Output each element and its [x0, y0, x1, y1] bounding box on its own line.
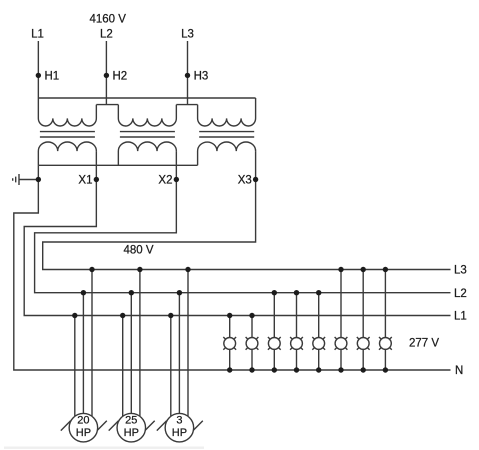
transformer T3 secondary winding: [198, 142, 256, 165]
junction E1 feeder: [227, 313, 232, 318]
transformer T3 primary winding: [198, 98, 256, 126]
junction E6 neutral: [338, 367, 343, 372]
wire delta jog H2: [96, 104, 118, 106]
wire X3 to L3 feeder: [43, 151, 451, 269]
svg-text:L2: L2: [454, 288, 467, 300]
lamp E7 bottom lead: [362, 349, 364, 370]
wire L1 drop: [37, 41, 39, 98]
lamp E1: [224, 338, 236, 350]
wire motor M1 branch L2: [82, 293, 84, 414]
lamp E2 top lead: [251, 316, 253, 338]
lamp E5 top lead: [318, 293, 320, 338]
svg-text:25: 25: [125, 415, 137, 427]
junction E5 feeder: [316, 290, 321, 295]
lamp E3 bottom lead: [273, 349, 275, 370]
junction M3-L3: [185, 267, 190, 272]
wire motor M1 branch L1: [74, 316, 76, 417]
lamp E4 bottom lead: [296, 349, 298, 370]
svg-text:H2: H2: [113, 71, 128, 83]
svg-text:L3: L3: [181, 29, 194, 41]
junction E7 feeder: [361, 267, 366, 272]
lamp E7: [357, 338, 369, 350]
svg-text:H3: H3: [194, 71, 209, 83]
lamp E7 top lead: [362, 270, 364, 338]
motor M1: [69, 413, 98, 442]
lamp E8 top lead: [384, 270, 386, 338]
lamp E5 bottom lead: [318, 349, 320, 370]
junction M3-L2: [177, 290, 182, 295]
junction E8 neutral: [383, 367, 388, 372]
junction E2 feeder: [249, 313, 254, 318]
junction E4 neutral: [294, 367, 299, 372]
svg-text:L1: L1: [31, 29, 44, 41]
terminal H2: [104, 73, 109, 78]
svg-text:20: 20: [77, 415, 89, 427]
lamp E8 bottom lead: [384, 349, 386, 370]
junction M1-L3: [89, 267, 94, 272]
svg-text:277 V: 277 V: [409, 338, 439, 350]
svg-text:L2: L2: [100, 29, 113, 41]
junction M2-L1: [120, 313, 125, 318]
junction E8 feeder: [383, 267, 388, 272]
transformer T1 primary winding: [38, 98, 96, 126]
motor M2: [117, 413, 146, 442]
wire motor M2 branch L2: [130, 293, 132, 414]
junction E6 feeder: [338, 267, 343, 272]
svg-text:L1: L1: [454, 311, 467, 323]
motor M3 slashes: [157, 421, 203, 431]
wire X1 to L1 feeder: [24, 151, 450, 315]
svg-text:HP: HP: [124, 427, 139, 439]
lamp E3 top lead: [273, 293, 275, 338]
wire neutral run: [14, 165, 451, 370]
junction M2-L2: [129, 290, 134, 295]
junction E3 feeder: [272, 290, 277, 295]
svg-text:X3: X3: [238, 175, 252, 187]
wire delta bus H1: [38, 97, 255, 99]
lamp E6: [335, 338, 347, 350]
svg-text:L3: L3: [454, 265, 467, 277]
junction E1 neutral: [227, 367, 232, 372]
lamp E1 top lead: [229, 316, 231, 338]
transformer T1 core: [40, 132, 95, 137]
lamp E4: [291, 338, 303, 350]
transformer T2 primary winding: [118, 105, 176, 126]
wire motor M1 branch L3: [91, 270, 93, 417]
wire motor M3 branch L3: [187, 270, 189, 417]
transformer T1 secondary winding: [38, 142, 96, 165]
svg-text:HP: HP: [76, 427, 91, 439]
svg-text:HP: HP: [172, 427, 187, 439]
terminal H1: [36, 73, 41, 78]
lamp E2 bottom lead: [251, 349, 253, 370]
junction E2 neutral: [249, 367, 254, 372]
terminal X2: [174, 177, 179, 182]
wire motor M3 branch L1: [170, 316, 172, 417]
transformer T2 core: [120, 132, 175, 137]
wire motor M3 branch L2: [178, 293, 180, 414]
transformer T3 core: [199, 132, 254, 137]
motor M3: [165, 413, 194, 442]
lamp E6 bottom lead: [340, 349, 342, 370]
junction M2-L3: [137, 267, 142, 272]
motor M1 slashes: [61, 421, 107, 431]
wire wye common X0: [38, 164, 197, 166]
terminal H3: [185, 73, 190, 78]
wire L2 drop: [105, 41, 107, 105]
lamp E2: [246, 338, 258, 350]
svg-text:4160 V: 4160 V: [89, 14, 126, 26]
lamp E8: [380, 338, 392, 350]
transformer T2 secondary winding: [118, 142, 176, 165]
wire L3 drop: [187, 41, 189, 105]
junction ground X0: [36, 177, 41, 182]
terminal X3: [253, 177, 258, 182]
junction E3 neutral: [272, 367, 277, 372]
ground symbol: [13, 174, 39, 185]
lamp E4 top lead: [296, 293, 298, 338]
junction M1-L1: [72, 313, 77, 318]
lamp E5: [313, 338, 325, 350]
wire motor M2 branch L3: [139, 270, 141, 417]
lamp E1 bottom lead: [229, 349, 231, 370]
wire motor M2 branch L1: [122, 316, 124, 417]
motor M2 slashes: [109, 421, 155, 431]
junction E5 neutral: [316, 367, 321, 372]
junction E4 feeder: [294, 290, 299, 295]
svg-text:X2: X2: [158, 175, 172, 187]
terminal X1: [94, 177, 99, 182]
lamp E6 top lead: [340, 270, 342, 338]
junction M1-L2: [81, 290, 86, 295]
wire X2 to L2 feeder: [35, 151, 451, 293]
faint caption remnant: [4, 447, 204, 449]
svg-text:X1: X1: [78, 175, 92, 187]
wire delta jog H3: [176, 104, 197, 106]
junction M3-L1: [168, 313, 173, 318]
svg-text:3: 3: [176, 415, 182, 427]
svg-text:H1: H1: [45, 71, 60, 83]
lamp E3: [268, 338, 280, 350]
junction E7 neutral: [361, 367, 366, 372]
svg-text:480 V: 480 V: [123, 245, 153, 257]
svg-text:N: N: [455, 365, 463, 377]
